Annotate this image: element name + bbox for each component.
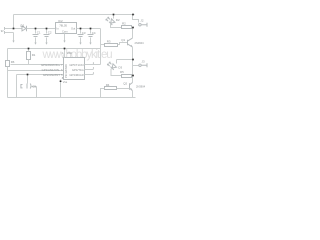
resistor R2	[122, 26, 132, 29]
transistor Q1	[128, 38, 133, 47]
capacitor C2	[46, 29, 48, 34]
svg-text:Out: Out	[71, 27, 75, 31]
wire node down to Q2	[132, 60, 134, 83]
wire R5 right	[132, 75, 133, 77]
ground arrow J1	[12, 41, 14, 43]
capacitor C5 electrolytic	[27, 84, 31, 89]
wire R6 bottom to rail	[7, 67, 9, 98]
resistor R6	[6, 61, 10, 67]
wire IC pin4 stub	[85, 74, 94, 76]
svg-text:C5: C5	[32, 85, 36, 89]
wire 5V vertical	[100, 29, 102, 65]
resistor R5	[122, 75, 132, 78]
wire D1 to regulator	[27, 28, 56, 30]
wire node to Q1	[132, 28, 134, 38]
wire regulator out	[77, 28, 101, 30]
svg-text:GP3/MCLR: GP3/MCLR	[69, 73, 83, 77]
svg-text:J3: J3	[142, 60, 145, 64]
LED D3	[111, 64, 117, 70]
capacitor C3	[80, 29, 82, 34]
svg-text:GP5/T1CKI: GP5/T1CKI	[69, 63, 84, 67]
svg-text:C4: C4	[92, 31, 96, 35]
svg-text:9V: 9V	[1, 30, 4, 33]
svg-text:R4: R4	[106, 83, 110, 87]
wire J1 plus vertical	[13, 15, 15, 29]
ground arrow C3	[79, 43, 81, 45]
wire C5 top lead	[27, 75, 29, 84]
regulator com lead	[64, 34, 66, 41]
svg-text:Vss: Vss	[63, 80, 68, 84]
wire R6 top	[7, 49, 9, 61]
svg-text:Q2: Q2	[123, 81, 127, 85]
wire 5V horizontal	[8, 48, 101, 50]
wire top rail	[14, 14, 135, 16]
capacitor C5 polarity bracket	[21, 85, 23, 88]
connector J2 top right	[139, 24, 141, 26]
wire GP0 row	[11, 64, 64, 66]
ground arrow C4	[89, 43, 91, 45]
ground arrow C2	[45, 43, 47, 45]
svg-text:2N3904: 2N3904	[135, 41, 145, 45]
svg-text:C1: C1	[37, 31, 41, 35]
LED D2 arrows	[106, 17, 110, 21]
wire R4 left to rail	[101, 89, 105, 98]
svg-text:D2: D2	[116, 18, 120, 22]
wire C5 right lead	[31, 87, 37, 98]
wire to J3 connector	[133, 65, 139, 67]
svg-text:R6: R6	[11, 60, 15, 64]
svg-text:Com: Com	[62, 30, 67, 34]
wire R1 bottom	[28, 60, 30, 65]
Q2 emitter arrow	[131, 88, 133, 90]
connector J1 pin2	[4, 31, 6, 34]
svg-text:GP0/AN0/CIN+: GP0/AN0/CIN+	[41, 63, 60, 67]
svg-text:GP4/T1G: GP4/T1G	[72, 68, 84, 72]
LED D2	[113, 15, 115, 19]
connector J3 right	[139, 64, 141, 66]
wire rail to J2 connector	[133, 15, 139, 23]
svg-text:R3: R3	[107, 40, 111, 44]
wire Vdd stub	[64, 49, 66, 58]
svg-text:GP2/AN2/INT: GP2/AN2/INT	[43, 73, 60, 77]
ground arrow C1	[34, 43, 36, 45]
wire R3 corner	[101, 44, 105, 46]
svg-text:C2: C2	[48, 31, 52, 35]
svg-text:R2: R2	[122, 22, 126, 26]
svg-text:R1: R1	[32, 53, 36, 57]
transistor Q2	[130, 83, 133, 91]
ground rail	[8, 97, 136, 99]
wire LED D3 node	[117, 60, 133, 64]
regulator IC2 box	[56, 23, 77, 34]
wire IC pin3 stub	[85, 69, 94, 71]
wire IC pin2 right	[85, 64, 101, 66]
wire D2 to R2	[111, 23, 122, 27]
resistor R4	[105, 87, 117, 90]
wire R1 top	[28, 49, 30, 52]
wire Q2 emitter to ground	[132, 91, 134, 98]
wire GP2 row	[17, 74, 64, 76]
IC pin labels	[41, 62, 95, 78]
svg-text:Vdd: Vdd	[67, 51, 72, 55]
resistor R1	[27, 52, 31, 60]
wire Q1 collector	[132, 28, 134, 39]
svg-text:C3: C3	[82, 31, 86, 35]
ground arrow regulator	[63, 41, 65, 43]
wire Vss stub to rail	[60, 80, 62, 98]
svg-text:2N3904: 2N3904	[136, 85, 146, 89]
svg-text:www.hobbykit.eu: www.hobbykit.eu	[42, 49, 113, 61]
wire R3 to Q1 base	[118, 43, 128, 45]
capacitor C4	[90, 29, 92, 34]
svg-text:J2: J2	[140, 19, 143, 23]
Q1 emitter arrow	[130, 45, 132, 47]
IC1 box	[64, 58, 85, 80]
wire J1 pin2	[5, 33, 14, 41]
wire GP1 row	[8, 70, 64, 72]
svg-text:R5: R5	[120, 70, 124, 74]
wire D3 to R5	[111, 68, 122, 76]
svg-text:D3: D3	[118, 66, 122, 70]
svg-text:GP1/AN1/CIN-: GP1/AN1/CIN-	[42, 68, 60, 72]
connector J1 pin1	[4, 27, 6, 30]
component labels	[1, 18, 146, 89]
svg-text:78L05: 78L05	[59, 23, 67, 27]
wire R2 to node	[132, 27, 134, 29]
resistor R3	[105, 44, 118, 47]
wire R4 to Q2 base	[117, 88, 130, 90]
svg-text:IC2: IC2	[58, 19, 63, 23]
svg-text:PIC12F629: PIC12F629	[64, 64, 68, 78]
svg-text:Q1: Q1	[121, 38, 125, 42]
LED D3 arrows	[107, 62, 111, 66]
diode D1	[22, 26, 27, 31]
wire Q1 emitter	[132, 47, 134, 59]
capacitor C1	[35, 29, 37, 34]
svg-text:D1: D1	[21, 24, 25, 28]
wire ground left vertical	[16, 75, 18, 98]
junction dots	[13, 14, 134, 82]
wire J1 pin1	[5, 28, 22, 30]
